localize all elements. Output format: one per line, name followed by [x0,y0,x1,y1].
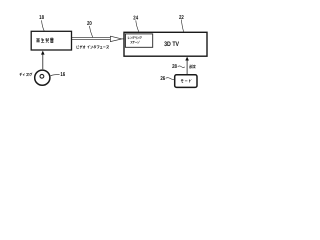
playback device box 18 [31,31,71,50]
svg-text:18: 18 [39,15,44,21]
disc 16 outer circle [35,70,50,85]
3D TV box 22 [124,32,207,56]
short connector line arrow tip to TV box [122,38,124,40]
leader line for 18 [42,20,45,31]
tick leader 16 [51,74,60,76]
label モード (mode) [181,79,191,82]
svg-text:26: 26 [160,76,165,82]
arrowhead into TV box bottom [185,57,189,61]
arrowhead into playback box bottom [41,51,45,55]
video interface double-line arrow shaft 20 [72,38,111,40]
label レンダリング ステージ (rendering stage) [128,36,142,39]
wire from disc up into playback box [42,54,44,69]
rendering stage box 24 [125,34,152,47]
svg-text:16: 16 [60,72,65,78]
squiggle leader 26 [166,78,175,80]
svg-text:28: 28 [172,64,177,70]
squiggle leader 28 [178,66,185,68]
label ビデオ インタフェース (video interface) [77,45,109,48]
label ディスク (disc) [20,73,33,76]
wire from mode box up into TV box (setting line 28) [186,60,188,74]
mode box 26 [175,75,197,88]
label 設定 (setting) [190,65,196,69]
disc 16 inner circle [40,74,44,78]
label 再生装置 (playback device) [36,38,53,43]
video interface hollow arrowhead [110,36,122,41]
svg-text:3D TV: 3D TV [164,41,179,48]
leader line for 22 [181,20,183,32]
leader line for 24 [136,20,139,31]
leader line for 20 [89,26,92,37]
